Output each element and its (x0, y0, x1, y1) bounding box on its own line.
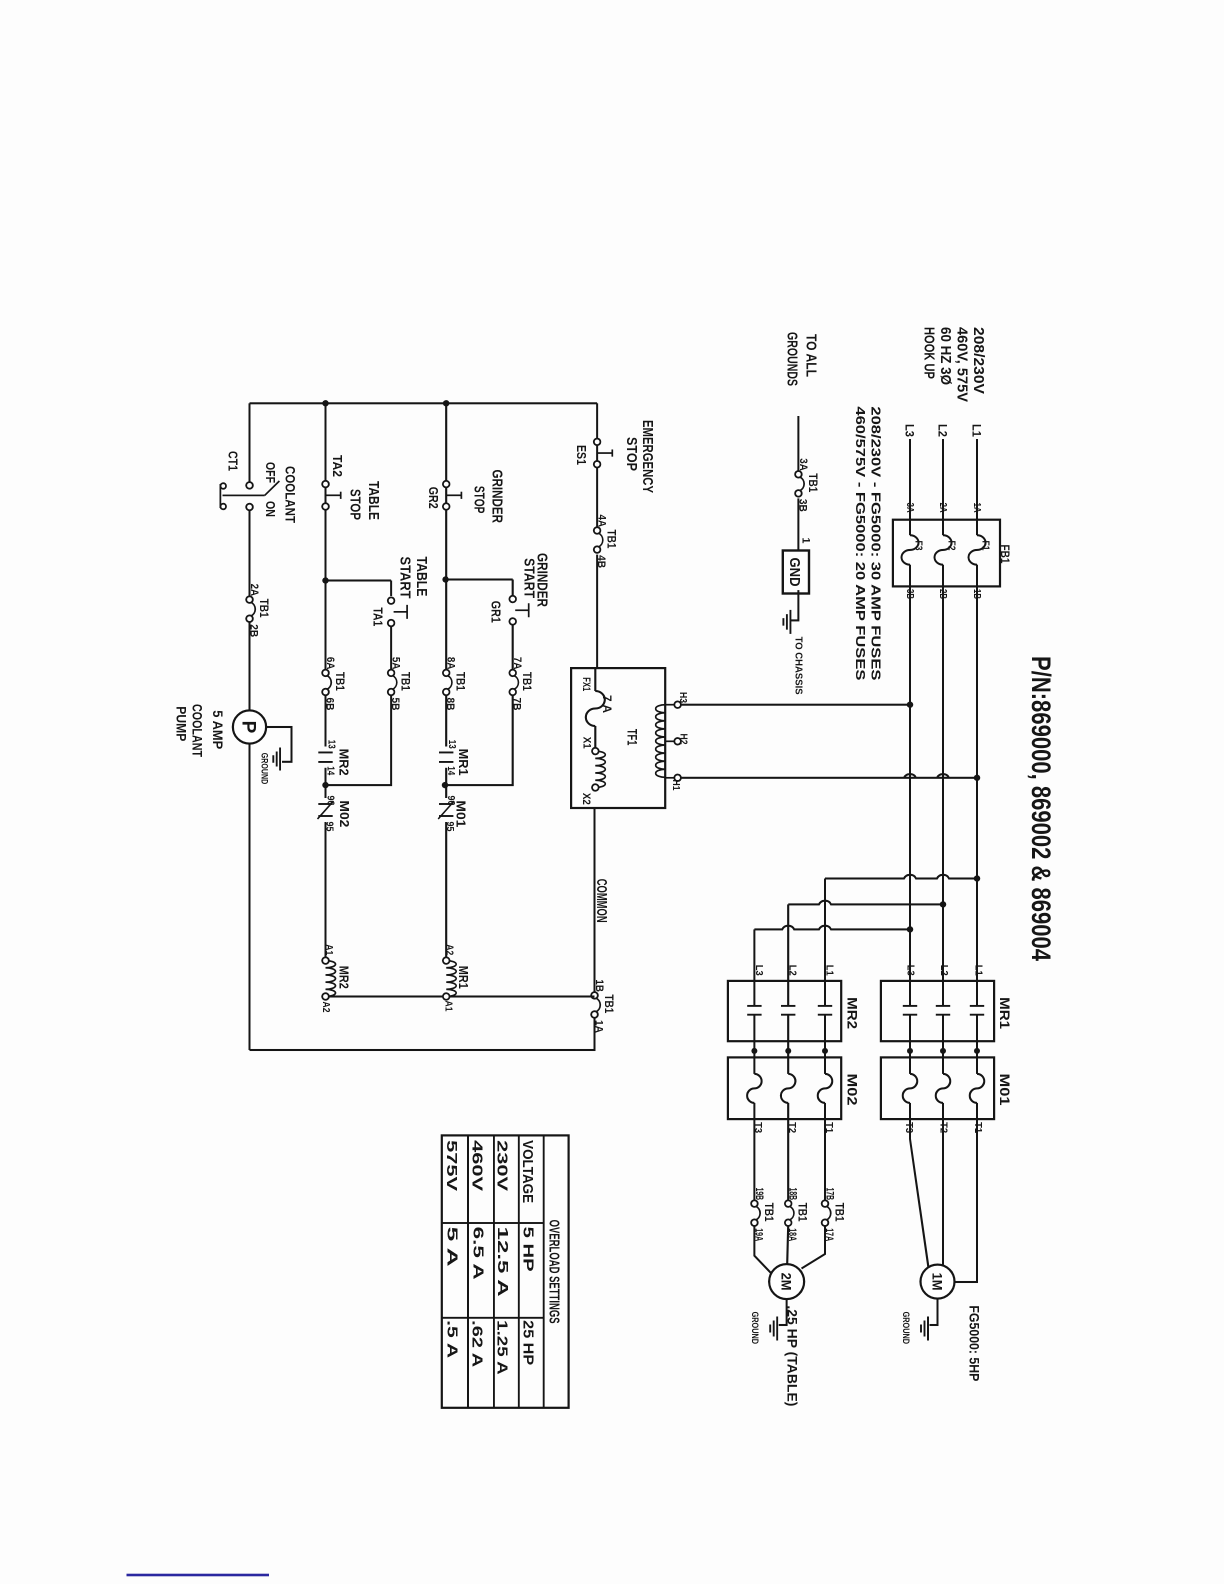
wire ES1 rung (596, 403, 598, 668)
secondary coil X1-X2 (595, 751, 605, 787)
svg-text:460V, 575V: 460V, 575V (954, 327, 971, 402)
wire GR2 rung (445, 403, 447, 957)
aux contact MR1 13/14 (439, 751, 453, 753)
svg-text:F3: F3 (913, 541, 925, 551)
svg-text:T2: T2 (938, 1122, 950, 1133)
junction MR2-M02 T2 (785, 1048, 791, 1054)
junction MR2-M02 T3 (751, 1048, 757, 1054)
svg-text:575V: 575V (443, 1140, 459, 1191)
svg-text:OFF: OFF (263, 462, 278, 483)
svg-text:3A: 3A (904, 503, 916, 513)
svg-text:STOP: STOP (347, 489, 364, 520)
svg-text:L3: L3 (903, 424, 917, 437)
svg-text:MR1: MR1 (997, 997, 1013, 1029)
wire 2M T1 lead (802, 1226, 826, 1269)
svg-text:F2: F2 (946, 541, 958, 551)
svg-text:L2: L2 (936, 424, 950, 437)
overload M01 heater T3 (903, 1074, 918, 1103)
terminal TB1 17B/17A (826, 1206, 831, 1220)
fuse FX1 (586, 691, 605, 726)
svg-text:7A: 7A (511, 657, 523, 670)
svg-text:GROUNDS: GROUNDS (784, 332, 801, 386)
svg-text:MR1: MR1 (456, 966, 470, 989)
svg-text:COMMON: COMMON (593, 879, 609, 923)
svg-text:.62 A: .62 A (469, 1320, 485, 1368)
junction TA1-rejoin (322, 782, 328, 788)
svg-text:TA2: TA2 (330, 455, 345, 477)
svg-text:1: 1 (800, 538, 812, 544)
pushbutton ES1 (NC) (594, 439, 601, 446)
motor 2M ground stub (779, 1299, 787, 1325)
terminal TB1 1B/1A (596, 998, 601, 1012)
junction H1/L1 (974, 775, 980, 781)
left rail wire (250, 402, 598, 404)
pushbutton GR2 (NC) (443, 481, 450, 488)
svg-text:TB1: TB1 (762, 1203, 774, 1223)
svg-text:GROUND: GROUND (749, 1312, 760, 1345)
svg-text:L1: L1 (973, 965, 985, 976)
svg-text:COOLANT: COOLANT (190, 704, 205, 758)
svg-text:START: START (521, 558, 538, 598)
junction MR1-M01 T2 (940, 1048, 946, 1054)
svg-text:VOLTAGE: VOLTAGE (519, 1140, 535, 1203)
svg-text:1A: 1A (971, 503, 983, 513)
svg-text:A2: A2 (320, 1002, 332, 1013)
svg-text:TB1: TB1 (333, 672, 345, 692)
wire common (250, 808, 595, 1050)
fuse block FB1 (893, 520, 1000, 587)
svg-text:2M: 2M (779, 1273, 794, 1291)
svg-text:TB1: TB1 (399, 672, 411, 692)
overload settings table grid (442, 1135, 569, 1407)
svg-text:T1: T1 (823, 1122, 835, 1133)
junction GR1-rejoin (442, 782, 448, 788)
svg-text:208/230V: 208/230V (970, 327, 987, 394)
wire MR2 feeder L2 (788, 901, 943, 905)
overload contact M02 95/96 (318, 803, 332, 805)
overload M02 heater T1 (818, 1074, 833, 1103)
svg-text:19B: 19B (753, 1188, 765, 1201)
svg-text:5B: 5B (389, 698, 401, 711)
pushbutton TA1 (NO) (388, 597, 395, 604)
aux contact MR2 13/14 (318, 751, 332, 753)
wire L3 (910, 439, 928, 1267)
svg-text:TA1: TA1 (371, 607, 386, 626)
wire coil return (326, 995, 595, 997)
junction TA2/TA1-branch (322, 577, 328, 583)
svg-text:1B: 1B (593, 979, 605, 992)
svg-text:12.5 A: 12.5 A (494, 1227, 510, 1298)
svg-text:1M: 1M (930, 1273, 945, 1291)
chassis ground symbol (789, 610, 791, 634)
wire ground bus (791, 416, 798, 620)
wire 2M T2 lead (787, 1226, 788, 1264)
motor 2M ground symbol (776, 1317, 778, 1341)
wire GR1 rung (446, 580, 513, 786)
motor 1M ground symbol (927, 1317, 929, 1341)
terminal TB1 2A/2B (251, 602, 256, 616)
svg-text:60 HZ 3Ø: 60 HZ 3Ø (937, 327, 954, 385)
terminal H3 stub (665, 704, 674, 706)
contactor MR2 contact T1 (818, 1005, 832, 1007)
svg-text:EMERGENCY: EMERGENCY (639, 420, 656, 493)
svg-text:L2: L2 (787, 965, 799, 976)
terminal TB1 18B/18A (789, 1206, 794, 1220)
svg-text:CT1: CT1 (225, 451, 240, 471)
junction MR2-M02 T1 (822, 1048, 828, 1054)
svg-text:95: 95 (324, 822, 336, 832)
terminal TB1 3A/3B (800, 477, 805, 491)
svg-text:MR2: MR2 (337, 749, 351, 776)
svg-text:TB1: TB1 (806, 473, 818, 493)
svg-text:2B: 2B (248, 624, 260, 637)
svg-text:1A: 1A (593, 1020, 605, 1033)
svg-text:T3: T3 (752, 1122, 764, 1133)
junction feeder1/L1 (974, 875, 980, 881)
contactor MR1 contact T2 (936, 1005, 950, 1007)
svg-text:7 A: 7 A (600, 695, 614, 713)
svg-text:8B: 8B (444, 698, 456, 711)
wire MR2 feeder L1 (825, 875, 977, 879)
svg-text:6B: 6B (324, 698, 336, 711)
svg-text:96: 96 (325, 796, 337, 806)
relay coil MR1 (446, 961, 456, 997)
svg-text:FB1: FB1 (998, 545, 1010, 565)
overload M02 heater T3 (747, 1074, 762, 1103)
svg-text:GND: GND (786, 558, 803, 587)
svg-text:H1: H1 (670, 780, 681, 791)
svg-text:4B: 4B (595, 555, 607, 568)
wire TA1 branch vertical (326, 579, 392, 581)
svg-text:2A: 2A (937, 503, 949, 513)
svg-text:6.5 A: 6.5 A (470, 1227, 486, 1281)
junction H3/L3 (907, 702, 913, 708)
overload M01 heater T2 (936, 1074, 951, 1103)
svg-text:ES1: ES1 (574, 445, 589, 465)
svg-text:STOP: STOP (471, 486, 488, 514)
terminal H2 stub (665, 740, 674, 742)
terminal TB1 8A/8B (447, 676, 452, 690)
svg-text:8A: 8A (445, 657, 457, 670)
svg-text:460V: 460V (469, 1140, 485, 1191)
svg-text:L3: L3 (753, 965, 765, 976)
switch CT1 blade (223, 494, 265, 496)
motor 1M circle (921, 1265, 955, 1299)
svg-text:TB1: TB1 (605, 530, 617, 550)
terminal TB1 19B/19A (756, 1206, 761, 1220)
svg-text:A1: A1 (323, 944, 335, 955)
junction left-rail/GR2 (443, 400, 449, 406)
svg-text:ON: ON (263, 501, 278, 517)
wire pump ground stub (266, 727, 291, 762)
wire TA2 rung (324, 403, 326, 957)
svg-text:START: START (397, 557, 414, 599)
terminal TB1 6A/6B (327, 676, 332, 690)
svg-text:L1: L1 (970, 424, 984, 437)
svg-text:COOLANT: COOLANT (283, 466, 298, 524)
svg-text:TB1: TB1 (257, 599, 269, 619)
svg-text:A1: A1 (443, 1001, 455, 1012)
svg-text:MR1: MR1 (456, 749, 470, 776)
relay coil MR2 (326, 961, 336, 997)
svg-text:3B: 3B (796, 499, 808, 512)
svg-text:M02: M02 (845, 1074, 861, 1106)
contactor MR1 contact T1 (970, 1005, 984, 1007)
wire TA1 rung (326, 581, 392, 786)
motor 1M ground stub (930, 1299, 938, 1325)
svg-text:GR2: GR2 (426, 487, 441, 509)
wire coolant rung (248, 403, 250, 1050)
junction feeder2/L2 (940, 901, 946, 907)
overload block M01 box (881, 1057, 994, 1119)
svg-text:GRINDER: GRINDER (489, 470, 506, 524)
contactor MR1 contact T3 (903, 1005, 917, 1007)
svg-text:4A: 4A (596, 515, 608, 528)
svg-text:1B: 1B (971, 589, 983, 599)
svg-text:5 AMP: 5 AMP (210, 710, 225, 749)
svg-text:230V: 230V (494, 1140, 510, 1191)
svg-text:M02: M02 (337, 800, 351, 827)
svg-text:14: 14 (325, 766, 337, 775)
junction MR1-M01 T1 (974, 1048, 980, 1054)
svg-text:17B: 17B (824, 1188, 836, 1201)
svg-text:3B: 3B (904, 589, 916, 599)
svg-text:TB1: TB1 (520, 672, 532, 692)
svg-text:.25 HP (TABLE): .25 HP (TABLE) (785, 1305, 801, 1406)
svg-text:OVERLOAD SETTINGS: OVERLOAD SETTINGS (546, 1220, 562, 1324)
svg-text:TABLE: TABLE (365, 481, 382, 520)
svg-text:MR2: MR2 (845, 997, 861, 1029)
svg-text:M01: M01 (997, 1074, 1013, 1106)
svg-text:FG5000: 5HP: FG5000: 5HP (967, 1305, 983, 1381)
transformer TF1 primary winding (656, 705, 666, 778)
svg-text:25 HP: 25 HP (520, 1320, 536, 1365)
pump ground symbol (279, 748, 281, 771)
wire H3 feeder to L3 (681, 704, 910, 706)
pushbutton TA2 (NC) (322, 481, 329, 488)
svg-text:7B: 7B (511, 698, 523, 711)
fuse F2 (935, 535, 952, 565)
svg-text:GROUND: GROUND (259, 753, 270, 785)
svg-text:TABLE: TABLE (413, 557, 430, 597)
svg-text:X1: X1 (581, 737, 593, 749)
svg-text:13: 13 (326, 740, 338, 749)
wire MR2 feeder L3 (754, 926, 910, 930)
svg-text:T3: T3 (903, 1122, 915, 1133)
terminal TB1 4A/4B (598, 533, 603, 547)
svg-text:5 HP: 5 HP (520, 1227, 536, 1272)
svg-text:T1: T1 (972, 1122, 984, 1133)
svg-text:STOP: STOP (623, 437, 640, 471)
wire MR2 outputs (754, 1015, 825, 1201)
svg-text:460/575V - FG5000: 20 AMP FUS: 460/575V - FG5000: 20 AMP FUSES (853, 406, 868, 680)
fuse F3 (902, 535, 919, 565)
svg-text:13: 13 (446, 740, 458, 749)
svg-text:TO ALL: TO ALL (803, 334, 820, 377)
svg-text:FX1: FX1 (580, 677, 592, 691)
terminal TB1 5A/5B (392, 676, 397, 690)
svg-text:P/N:869000, 869002 & 869004: P/N:869000, 869002 & 869004 (1026, 656, 1056, 961)
svg-text:TF1: TF1 (624, 729, 639, 746)
overload M02 heater T2 (781, 1074, 796, 1103)
motor 2M circle (769, 1264, 804, 1299)
svg-text:1.25 A: 1.25 A (493, 1320, 509, 1375)
wire H1 feeder to L1 (681, 774, 977, 778)
svg-text:HOOK UP: HOOK UP (921, 327, 938, 379)
svg-text:P: P (238, 721, 259, 734)
overload contact M01 95/96 (439, 803, 453, 805)
switch CT1 contacts (246, 482, 253, 489)
svg-text:M01: M01 (454, 800, 468, 827)
coolant pump P (233, 710, 266, 743)
svg-text:2B: 2B (937, 589, 949, 599)
contactor MR1 box (881, 981, 994, 1041)
svg-text:A2: A2 (444, 944, 456, 955)
contactor MR2 contact T3 (747, 1005, 761, 1007)
junction feeder3/L3 (907, 926, 913, 932)
svg-text:TB1: TB1 (454, 672, 466, 692)
junction MR1-M01 T3 (907, 1048, 913, 1054)
svg-text:GR1: GR1 (489, 601, 504, 623)
junction left-rail/TA2 (322, 400, 328, 406)
svg-text:L3: L3 (905, 965, 917, 976)
svg-text:H2: H2 (678, 734, 689, 745)
svg-text:.5 A: .5 A (443, 1320, 459, 1359)
svg-text:2A: 2A (248, 584, 260, 597)
terminal H1 stub (665, 777, 674, 779)
svg-text:3A: 3A (797, 458, 809, 471)
svg-text:GROUND: GROUND (900, 1312, 911, 1345)
svg-text:PUMP: PUMP (174, 706, 189, 741)
wire 2M T3 lead (754, 1226, 773, 1275)
ground lug GND box (783, 551, 809, 594)
svg-text:5 A: 5 A (444, 1227, 460, 1268)
svg-text:T2: T2 (786, 1122, 798, 1133)
junction GR2/GR1-branch (442, 576, 448, 582)
svg-text:F1: F1 (980, 541, 992, 551)
svg-text:H3: H3 (677, 692, 688, 703)
svg-text:TB1: TB1 (602, 994, 614, 1014)
svg-text:208/230V - FG5000: 30 AMP FUS: 208/230V - FG5000: 30 AMP FUSES (869, 406, 884, 680)
contactor MR2 contact T2 (781, 1005, 795, 1007)
svg-text:TB1: TB1 (833, 1203, 845, 1223)
svg-text:TO CHASSIS: TO CHASSIS (792, 637, 804, 695)
pushbutton GR1 (NO) (509, 596, 516, 603)
switch CT1 lower pole (220, 483, 226, 489)
svg-text:5A: 5A (390, 657, 402, 670)
svg-text:X2: X2 (580, 793, 592, 805)
overload M01 heater T1 (970, 1074, 985, 1103)
svg-text:18B: 18B (787, 1188, 799, 1201)
svg-text:L2: L2 (938, 965, 950, 976)
terminal TB1 7A/7B (514, 676, 519, 690)
wire GR1 branch vertical (446, 578, 513, 580)
wire L1 (955, 439, 978, 1282)
svg-text:L1: L1 (824, 965, 836, 976)
wire TF1 secondary (594, 668, 596, 748)
transformer TF1 box (571, 668, 665, 808)
svg-text:TB1: TB1 (796, 1203, 808, 1223)
contactor MR2 box (728, 981, 841, 1041)
overload block M02 box (728, 1057, 841, 1119)
fuse F1 (969, 535, 986, 565)
svg-text:6A: 6A (324, 657, 336, 670)
scan artifact blue line (127, 1574, 270, 1577)
svg-text:MR2: MR2 (337, 966, 351, 989)
wire L2 (942, 439, 944, 1265)
